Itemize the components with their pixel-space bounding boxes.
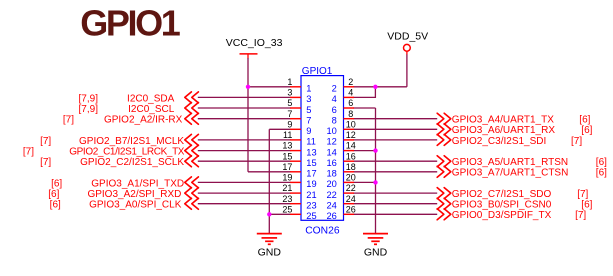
wire GPIO2_B7/I2S1_MCLK to pin 11 (198, 139, 291, 141)
svg-text:[7]: [7] (575, 210, 586, 221)
svg-text:24: 24 (346, 194, 356, 204)
pin 2 stub (344, 86, 355, 88)
power symbol VDD_5V (387, 31, 428, 55)
svg-text:4: 4 (332, 94, 337, 104)
wire GPIO2_C7/I2S1_SDO from pin 22 (353, 192, 437, 194)
wire VDD_5V to pin 2 (353, 86, 407, 88)
svg-text:25: 25 (306, 211, 316, 221)
svg-text:[6]: [6] (581, 125, 592, 136)
svg-text:25: 25 (282, 204, 292, 214)
svg-text:VCC_IO_33: VCC_IO_33 (226, 37, 283, 49)
off-page connector chevron GPIO3_A4/UART1_TX (437, 113, 451, 124)
svg-text:VDD_5V: VDD_5V (387, 31, 428, 43)
svg-text:18: 18 (326, 169, 336, 179)
svg-text:GPIO2_C2/I2S1_SCLK: GPIO2_C2/I2S1_SCLK (80, 157, 184, 168)
svg-text:7: 7 (306, 116, 311, 126)
off-page connector chevron GPIO3_A7/UART1_CTSN (437, 166, 451, 177)
svg-text:26: 26 (346, 204, 356, 214)
svg-text:4: 4 (348, 88, 353, 98)
svg-text:[7]: [7] (40, 136, 51, 147)
pin 14 stub (344, 150, 355, 152)
power symbol VCC_IO_33 (226, 37, 283, 59)
pin 11 stub (290, 139, 301, 141)
svg-text:GPIO3_A7/UART1_CTSN: GPIO3_A7/UART1_CTSN (452, 168, 569, 179)
wire GND to pin 25 (269, 213, 291, 215)
svg-text:16: 16 (346, 151, 356, 161)
wire VCC_IO_33 to pin 17 (248, 171, 291, 173)
wire GPIO3_A6/UART1_RX from pin 10 (353, 128, 437, 130)
pin 15 stub (290, 160, 301, 162)
pin 16 stub (344, 160, 355, 162)
pin 20 stub (344, 181, 355, 183)
svg-text:14: 14 (326, 147, 336, 157)
svg-text:GPIO1: GPIO1 (302, 66, 333, 77)
svg-text:18: 18 (346, 162, 356, 172)
off-page connector chevron I2C0_SCL (185, 103, 199, 114)
svg-text:GPIO3_A5/UART1_RTSN: GPIO3_A5/UART1_RTSN (452, 157, 568, 168)
wire I2C0_SDA to pin 3 (198, 96, 291, 98)
off-page connector chevron GPIO2_C3/I2S1_SDI (437, 134, 451, 145)
ground symbol right (363, 234, 388, 259)
pin 6 stub (344, 107, 355, 109)
wire GPIO3_A0/SPI_CLK to pin 23 (198, 203, 291, 205)
svg-text:[6]: [6] (579, 115, 590, 126)
wire GND left vertical (268, 129, 270, 233)
junction GND pin25 (267, 212, 271, 216)
pin 4 stub (344, 96, 355, 98)
wire GND to pin 14 (353, 150, 375, 152)
wire GPIO3_A1/SPI_TXD to pin 19 (198, 181, 291, 183)
svg-text:22: 22 (326, 190, 336, 200)
svg-text:13: 13 (282, 141, 292, 151)
svg-text:2: 2 (348, 77, 353, 87)
pin 26 stub (344, 213, 355, 215)
svg-text:GND: GND (258, 246, 282, 258)
wire GPIO3_A5/UART1_RTSN from pin 16 (353, 160, 437, 162)
wire GPIO3_A2/SPI_RXD to pin 21 (198, 192, 291, 194)
pin 24 stub (344, 203, 355, 205)
svg-text:21: 21 (282, 183, 292, 193)
wire GPIO3_A4/UART1_TX from pin 8 (353, 118, 437, 120)
svg-text:21: 21 (306, 190, 316, 200)
svg-text:GPIO2_A2/IR-RX: GPIO2_A2/IR-RX (104, 115, 183, 126)
svg-text:6: 6 (332, 105, 337, 115)
wire GPIO2_C1/I2S1_LRCK_TX to pin 13 (198, 150, 291, 152)
junction GND pin14 (373, 148, 377, 152)
svg-text:[6]: [6] (50, 200, 61, 211)
off-page connector chevron GPIO3_B0/SPI_CSN0 (437, 198, 451, 209)
wire GPIO2_A2/IR-RX to pin 7 (198, 118, 291, 120)
off-page connector chevron GPIO3_A1/SPI_TXD (185, 177, 199, 188)
svg-text:GPIO0_D3/SPDIF_TX: GPIO0_D3/SPDIF_TX (452, 210, 552, 221)
svg-text:7: 7 (287, 109, 292, 119)
svg-text:GPIO3_A6/UART1_RX: GPIO3_A6/UART1_RX (452, 125, 556, 136)
svg-text:13: 13 (306, 147, 316, 157)
wire VCC_IO_33 to pin 1 (248, 86, 291, 88)
svg-text:8: 8 (348, 109, 353, 119)
junction GND pin20 (373, 180, 377, 184)
svg-text:5: 5 (287, 98, 292, 108)
svg-text:26: 26 (326, 211, 336, 221)
svg-text:9: 9 (287, 119, 292, 129)
pin 13 stub (290, 150, 301, 152)
off-page connector chevron GPIO2_C7/I2S1_SDO (437, 188, 451, 199)
off-page connector chevron GPIO2_B7/I2S1_MCLK (185, 134, 199, 145)
svg-text:I2C0_SDA: I2C0_SDA (127, 93, 175, 104)
junction VCC_IO_33 pin1 (246, 85, 250, 89)
svg-text:GPIO2_C1/I2S1_LRCK_TX: GPIO2_C1/I2S1_LRCK_TX (69, 147, 185, 158)
wire VDD_5V vertical (406, 54, 408, 86)
svg-text:[7]: [7] (571, 136, 582, 147)
svg-text:GPIO3_A0/SPI_CLK: GPIO3_A0/SPI_CLK (89, 200, 182, 211)
svg-text:9: 9 (306, 126, 311, 136)
wire GPIO3_B0/SPI_CSN0 from pin 24 (353, 203, 437, 205)
pin 10 stub (344, 128, 355, 130)
pin 1 stub (290, 86, 301, 88)
pin 5 stub (290, 107, 301, 109)
svg-text:GPIO3_A2/SPI_RXD: GPIO3_A2/SPI_RXD (87, 189, 181, 200)
svg-text:[6]: [6] (51, 178, 62, 189)
pin 18 stub (344, 171, 355, 173)
off-page connector chevron GPIO3_A6/UART1_RX (437, 124, 451, 135)
wire GND right vertical (375, 108, 377, 233)
svg-text:GPIO3_A4/UART1_TX: GPIO3_A4/UART1_TX (452, 115, 554, 126)
svg-text:GPIO3_B0/SPI_CSN0: GPIO3_B0/SPI_CSN0 (452, 200, 552, 211)
svg-text:24: 24 (326, 201, 336, 211)
svg-text:5: 5 (306, 105, 311, 115)
svg-text:15: 15 (306, 158, 316, 168)
off-page connector chevron GPIO0_D3/SPDIF_TX (437, 209, 451, 220)
svg-text:I2C0_SCL: I2C0_SCL (128, 104, 175, 115)
wire GND to pin 20 (353, 181, 375, 183)
wire VCC_IO_33 stem down (247, 58, 249, 87)
ground symbol left (257, 234, 282, 259)
svg-text:GPIO2_C3/I2S1_SDI: GPIO2_C3/I2S1_SDI (452, 136, 547, 147)
svg-text:3: 3 (306, 94, 311, 104)
wire GPIO0_D3/SPDIF_TX from pin 26 (353, 213, 437, 215)
svg-text:19: 19 (306, 179, 316, 189)
svg-text:1: 1 (287, 77, 292, 87)
off-page connector chevron GPIO3_A5/UART1_RTSN (437, 156, 451, 167)
off-page connector chevron GPIO3_A0/SPI_CLK (185, 198, 199, 209)
wire GND to pin 9 (269, 128, 291, 130)
wire GND to pin 6 (353, 107, 375, 109)
svg-text:11: 11 (283, 130, 292, 140)
svg-text:[7]: [7] (40, 157, 51, 168)
pin 23 stub (290, 203, 301, 205)
junction VDD_5V pin2/pin4 (373, 85, 377, 89)
off-page connector chevron GPIO2_C1/I2S1_LRCK_TX (185, 145, 199, 156)
wire GPIO2_C3/I2S1_SDI from pin 12 (353, 139, 437, 141)
svg-text:14: 14 (346, 141, 356, 151)
off-page connector chevron GPIO3_A2/SPI_RXD (185, 188, 199, 199)
svg-text:[6]: [6] (48, 189, 59, 200)
svg-text:GPIO1: GPIO1 (80, 3, 180, 44)
pin 7 stub (290, 118, 301, 120)
off-page connector chevron I2C0_SDA (185, 92, 199, 103)
pin 3 stub (290, 96, 301, 98)
svg-text:23: 23 (282, 194, 292, 204)
connector GPIO1 CON26 body (301, 76, 344, 221)
svg-text:[7,9]: [7,9] (79, 104, 99, 115)
svg-text:22: 22 (346, 183, 356, 193)
svg-text:GPIO2_C7/I2S1_SDO: GPIO2_C7/I2S1_SDO (452, 189, 552, 200)
pin 12 stub (344, 139, 355, 141)
svg-text:20: 20 (346, 173, 356, 183)
svg-text:6: 6 (348, 98, 353, 108)
svg-text:CON26: CON26 (305, 226, 340, 237)
svg-text:GPIO2_B7/I2S1_MCLK: GPIO2_B7/I2S1_MCLK (79, 136, 184, 147)
pin 8 stub (344, 118, 355, 120)
wire VCC_IO_33 vertical to pin 17 row (247, 87, 249, 172)
svg-text:[7]: [7] (63, 115, 74, 126)
wire GPIO3_A7/UART1_CTSN from pin 18 (353, 171, 437, 173)
svg-text:17: 17 (282, 162, 292, 172)
svg-text:19: 19 (282, 173, 292, 183)
wire I2C0_SCL to pin 5 (198, 107, 291, 109)
svg-text:1: 1 (306, 84, 311, 94)
svg-text:10: 10 (346, 119, 356, 129)
svg-text:8: 8 (332, 116, 337, 126)
svg-text:16: 16 (326, 158, 336, 168)
svg-text:[7,9]: [7,9] (79, 93, 99, 104)
svg-text:3: 3 (287, 88, 292, 98)
pin 21 stub (290, 192, 301, 194)
svg-text:GPIO3_A1/SPI_TXD: GPIO3_A1/SPI_TXD (91, 178, 184, 189)
wire GPIO2_C2/I2S1_SCLK to pin 15 (198, 160, 291, 162)
off-page connector chevron GPIO2_A2/IR-RX (185, 113, 199, 124)
svg-text:20: 20 (326, 179, 336, 189)
pin 22 stub (344, 192, 355, 194)
svg-text:12: 12 (326, 137, 336, 147)
svg-text:10: 10 (326, 126, 336, 136)
svg-text:2: 2 (332, 84, 337, 94)
svg-text:GND: GND (364, 246, 388, 258)
svg-text:[6]: [6] (596, 168, 607, 179)
pin 9 stub (290, 128, 301, 130)
svg-text:[7]: [7] (577, 189, 588, 200)
svg-text:11: 11 (306, 137, 316, 147)
pin 19 stub (290, 181, 301, 183)
pin 25 stub (290, 213, 301, 215)
svg-text:[6]: [6] (581, 200, 592, 211)
pin 17 stub (290, 171, 301, 173)
wire VDD_5V branch to pin 4 (353, 87, 375, 98)
svg-text:[6]: [6] (596, 157, 607, 168)
off-page connector chevron GPIO2_C2/I2S1_SCLK (185, 156, 199, 167)
svg-text:12: 12 (346, 130, 356, 140)
svg-text:23: 23 (306, 201, 316, 211)
svg-text:17: 17 (306, 169, 316, 179)
svg-text:[7]: [7] (23, 147, 34, 158)
svg-text:15: 15 (282, 151, 292, 161)
